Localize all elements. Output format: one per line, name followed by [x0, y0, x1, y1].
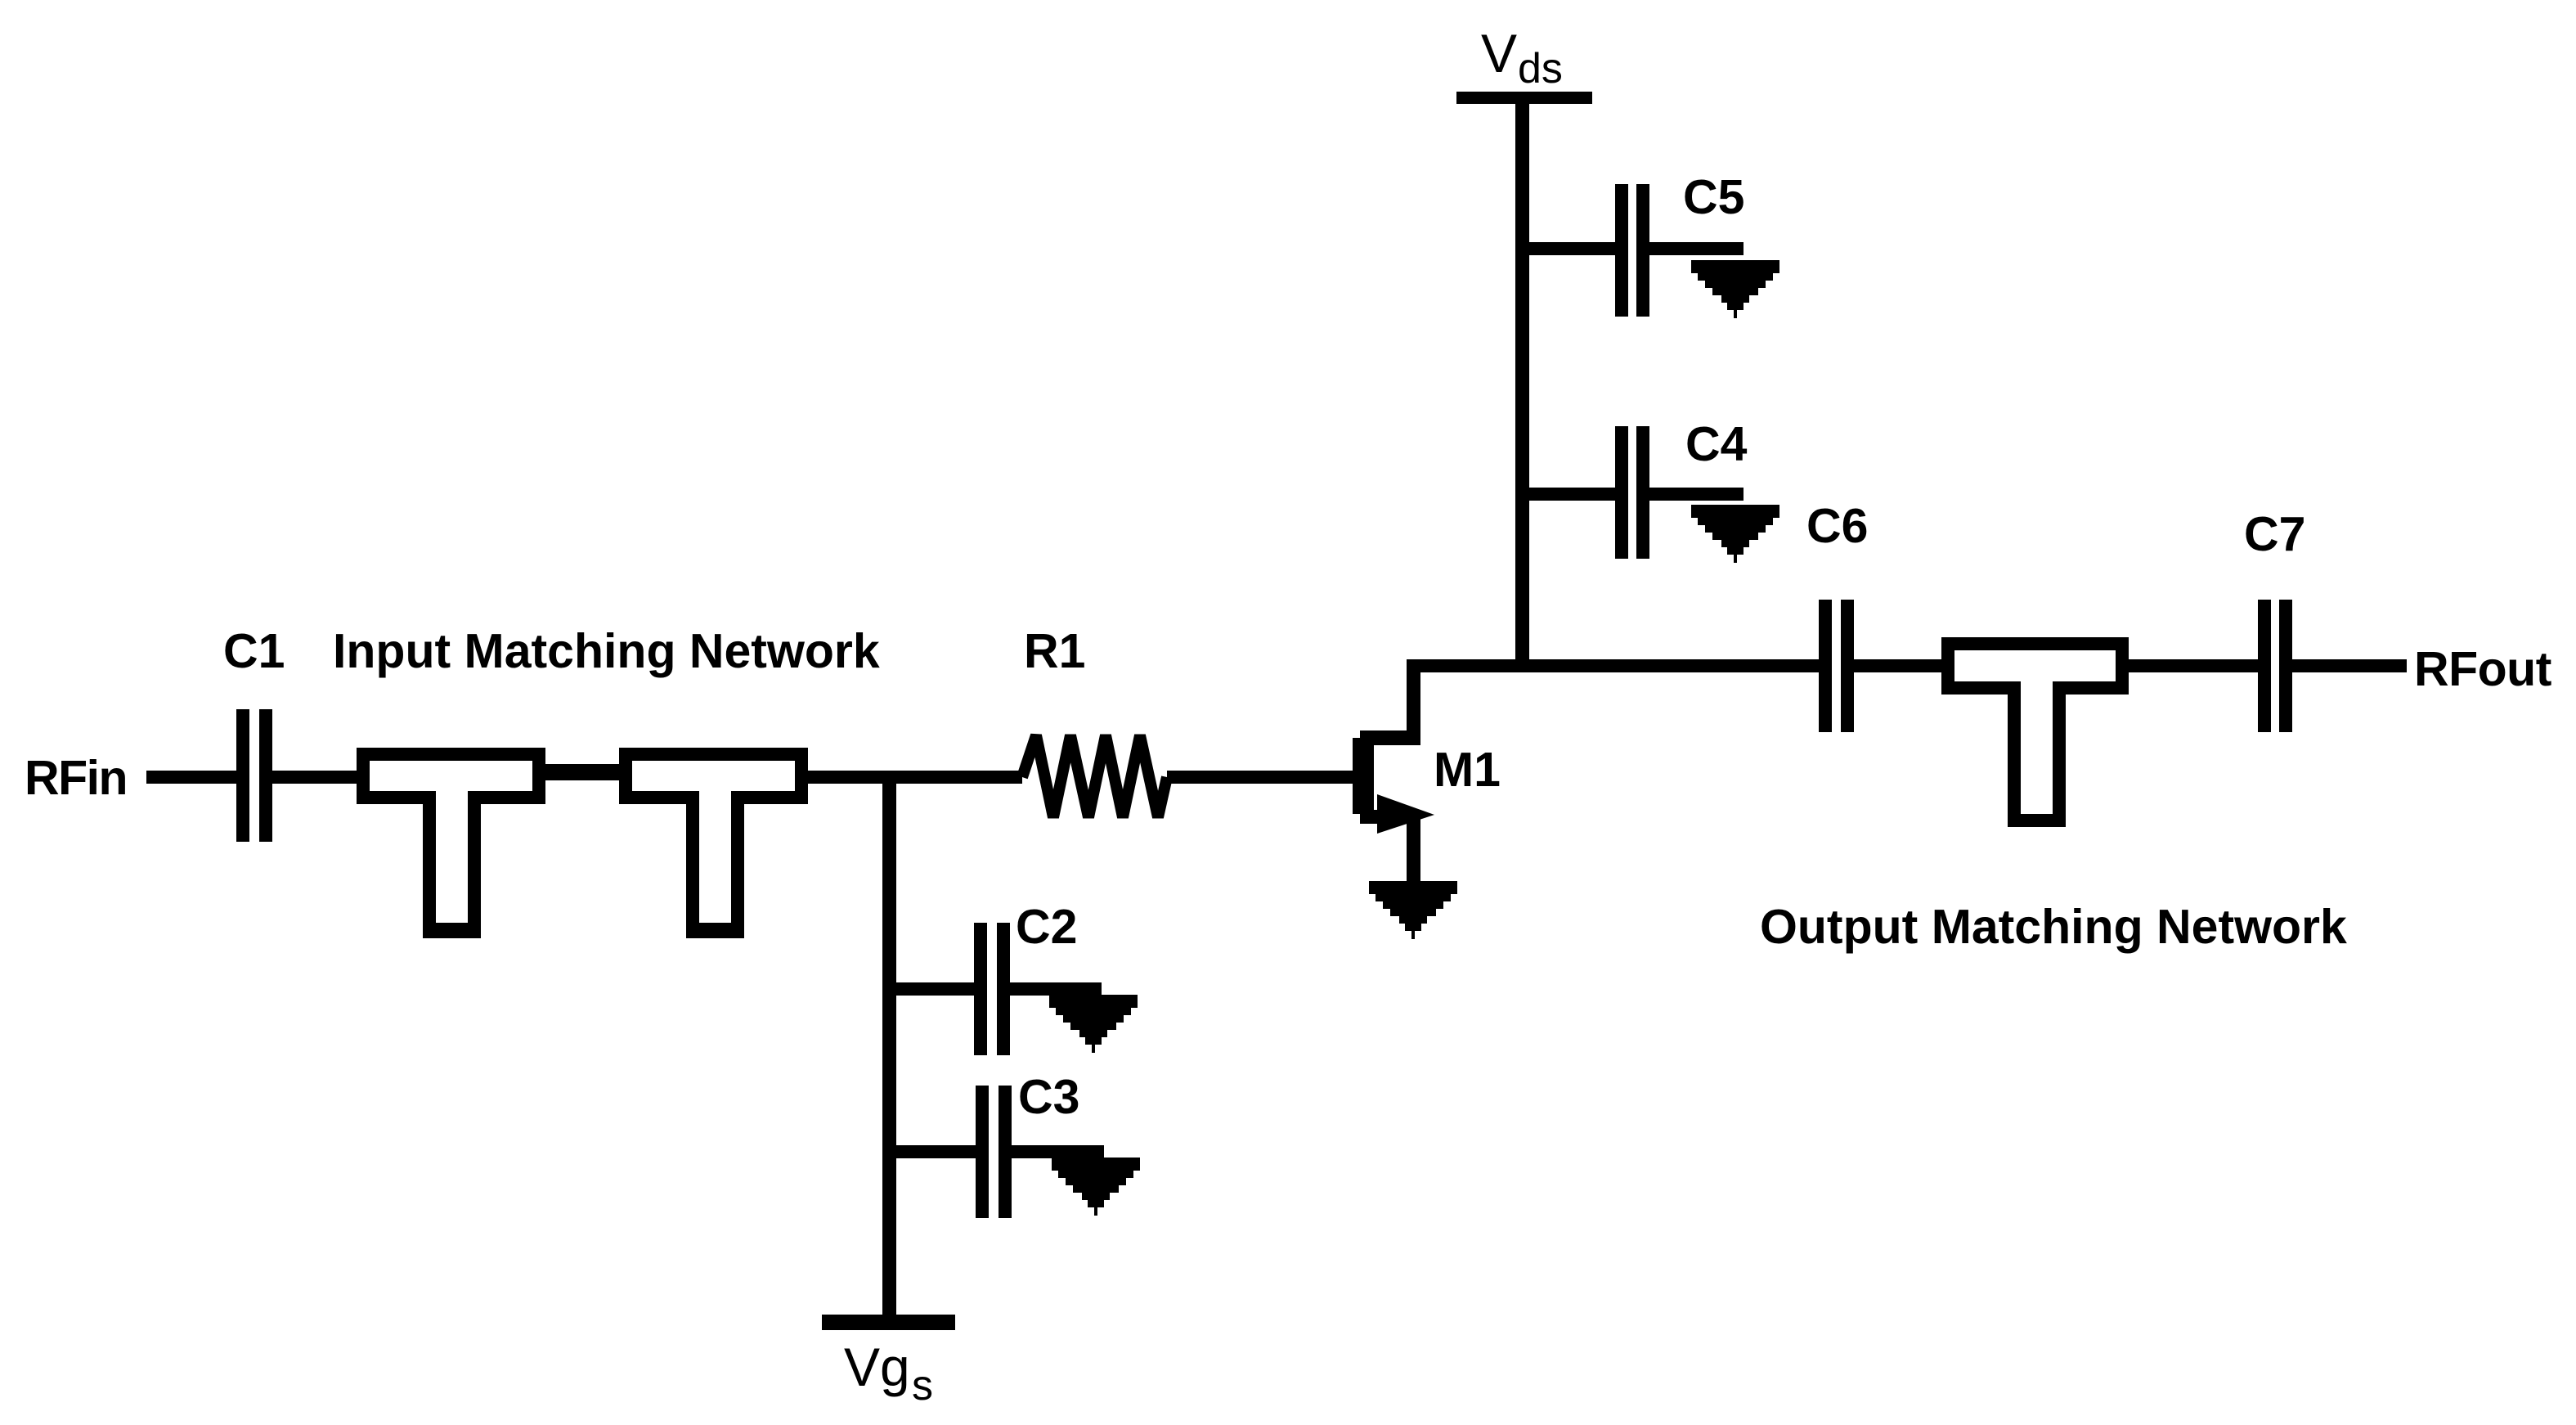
svg-text:R1: R1 [1024, 624, 1085, 678]
wire C6 to TL3 [1854, 659, 1941, 672]
label Vgs [844, 1337, 933, 1409]
svg-text:s: s [912, 1362, 933, 1409]
svg-text:RFin: RFin [25, 751, 127, 805]
Vgs supply bar [822, 1315, 955, 1330]
wire TL1 to TL2 [545, 764, 619, 780]
transistor M1 [1353, 659, 1434, 881]
wire R1 to M1 gate [1167, 771, 1353, 784]
ground for C3 [1052, 1158, 1140, 1216]
microstrip stub TL1 [357, 748, 545, 938]
wire Vds line to C4 [1522, 488, 1615, 501]
wire bias feed vertical (node to Vgs) [882, 772, 896, 1318]
Vds supply bar [1456, 92, 1592, 104]
wire node to C3 [890, 1145, 976, 1158]
capacitor C1 [236, 709, 272, 842]
wire Vds line to C5 [1522, 242, 1615, 255]
svg-text:Input Matching Network: Input Matching Network [333, 624, 880, 678]
wire C5 to ground [1649, 242, 1744, 255]
ground for C4 [1691, 505, 1779, 563]
wire C1 to TL1 [272, 771, 357, 784]
svg-text:Vg: Vg [844, 1337, 910, 1397]
svg-text:C5: C5 [1683, 170, 1744, 224]
capacitor C5 [1615, 184, 1649, 317]
svg-text:RFout: RFout [2414, 642, 2551, 696]
svg-text:C4: C4 [1685, 417, 1748, 471]
svg-text:C7: C7 [2244, 507, 2305, 561]
svg-text:C1: C1 [223, 624, 285, 678]
wire drain line to C6 [1407, 659, 1819, 672]
ground for C5 [1691, 260, 1779, 318]
wire node to C2 [890, 982, 974, 996]
svg-text:C6: C6 [1806, 499, 1868, 553]
wire RFin to C1 [146, 771, 236, 784]
wire TL2 to gate node [808, 771, 1022, 784]
ground for C2 [1049, 995, 1138, 1053]
ground for M1 source [1369, 881, 1457, 939]
svg-text:C3: C3 [1018, 1070, 1079, 1124]
capacitor C4 [1615, 426, 1649, 559]
microstrip stub TL2 [619, 748, 808, 938]
svg-text:Output Matching Network: Output Matching Network [1760, 900, 2347, 954]
wire C3 to ground [1012, 1145, 1104, 1158]
microstrip stub TL3 [1941, 637, 2129, 827]
label Vds [1481, 23, 1563, 92]
capacitor C3 [976, 1086, 1012, 1218]
capacitor C7 [2258, 600, 2292, 732]
capacitor C2 [974, 923, 1010, 1055]
wire C7 to RFout [2292, 659, 2407, 672]
svg-text:ds: ds [1518, 45, 1563, 92]
wire C2 to ground [1010, 982, 1102, 996]
resistor R1 [1022, 735, 1167, 817]
capacitor C6 [1819, 600, 1854, 732]
wire C4 to ground [1649, 488, 1744, 501]
svg-text:C2: C2 [1016, 900, 1077, 954]
wire TL3 to C7 [2129, 659, 2258, 672]
svg-text:M1: M1 [1434, 743, 1501, 797]
svg-text:V: V [1481, 23, 1517, 83]
wire Vds feed vertical [1515, 104, 1529, 666]
